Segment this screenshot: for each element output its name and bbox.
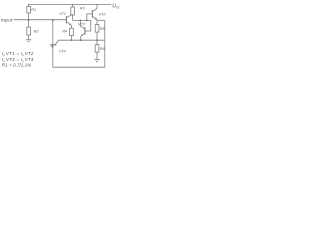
svg-text:R3: R3 — [80, 6, 86, 10]
svg-text:VT4: VT4 — [25, 57, 34, 62]
node on input line at R1/R2 column — [28, 19, 30, 21]
resistor R5 — [95, 25, 99, 41]
svg-text:Input: Input — [1, 17, 13, 22]
resistor R2 — [27, 20, 31, 40]
svg-text:VT1 = I: VT1 = I — [6, 51, 23, 56]
transistor VT4 — [50, 20, 58, 67]
svg-text:VT2: VT2 — [99, 12, 106, 16]
wire top supply rail — [28, 3, 111, 5]
equation line 3 — [2, 63, 31, 68]
svg-text:VT2: VT2 — [25, 51, 34, 56]
ground under R6 — [94, 60, 100, 62]
wire right vertical drop — [104, 20, 106, 67]
transistor VT3 — [80, 20, 91, 40]
ground under R2 — [26, 40, 32, 42]
wire VT2 emitter node to R5 and right drop — [96, 20, 98, 25]
transistor VT2 — [87, 4, 97, 20]
svg-text:VT3: VT3 — [78, 23, 86, 27]
equation line 1 — [2, 51, 34, 57]
net label Ucc — [112, 4, 119, 10]
resistor R3 — [71, 4, 75, 20]
resistor R4 — [70, 26, 74, 41]
wire bottom rail — [53, 66, 105, 68]
svg-text:VT1: VT1 — [59, 12, 66, 16]
node top rail at R1 — [28, 4, 29, 5]
svg-text:R4: R4 — [62, 29, 67, 33]
svg-text:R1 = 0,7/1,1%: R1 = 0,7/1,1% — [2, 63, 31, 68]
equation line 2 — [2, 57, 34, 63]
svg-text:VT3 = I: VT3 = I — [6, 57, 23, 62]
node R4 on middle wire — [71, 39, 73, 41]
node R3 branch / VT3 collector on wire — [79, 20, 81, 22]
node VT3 emitter on middle wire — [80, 39, 82, 41]
svg-text:R2: R2 — [34, 29, 39, 33]
node top rail at R3 — [72, 4, 73, 5]
node on input line at VT4 branch — [52, 19, 54, 21]
wire middle horizontal (collector bus of VT4) — [58, 39, 105, 41]
svg-text:R1: R1 — [31, 8, 36, 12]
node VT2 base branch on wire — [86, 20, 88, 22]
resistor R1 — [27, 4, 31, 19]
svg-text:VT4: VT4 — [59, 50, 66, 54]
svg-text:cc: cc — [116, 6, 120, 10]
wire input line — [14, 19, 67, 21]
node R6 on middle wire — [96, 39, 98, 41]
resistor R6 — [95, 40, 99, 59]
transistor VT1 — [66, 14, 72, 25]
wire collector node to VT3/VT2 bases — [73, 19, 91, 21]
node top rail at VT2 collector — [96, 4, 97, 5]
